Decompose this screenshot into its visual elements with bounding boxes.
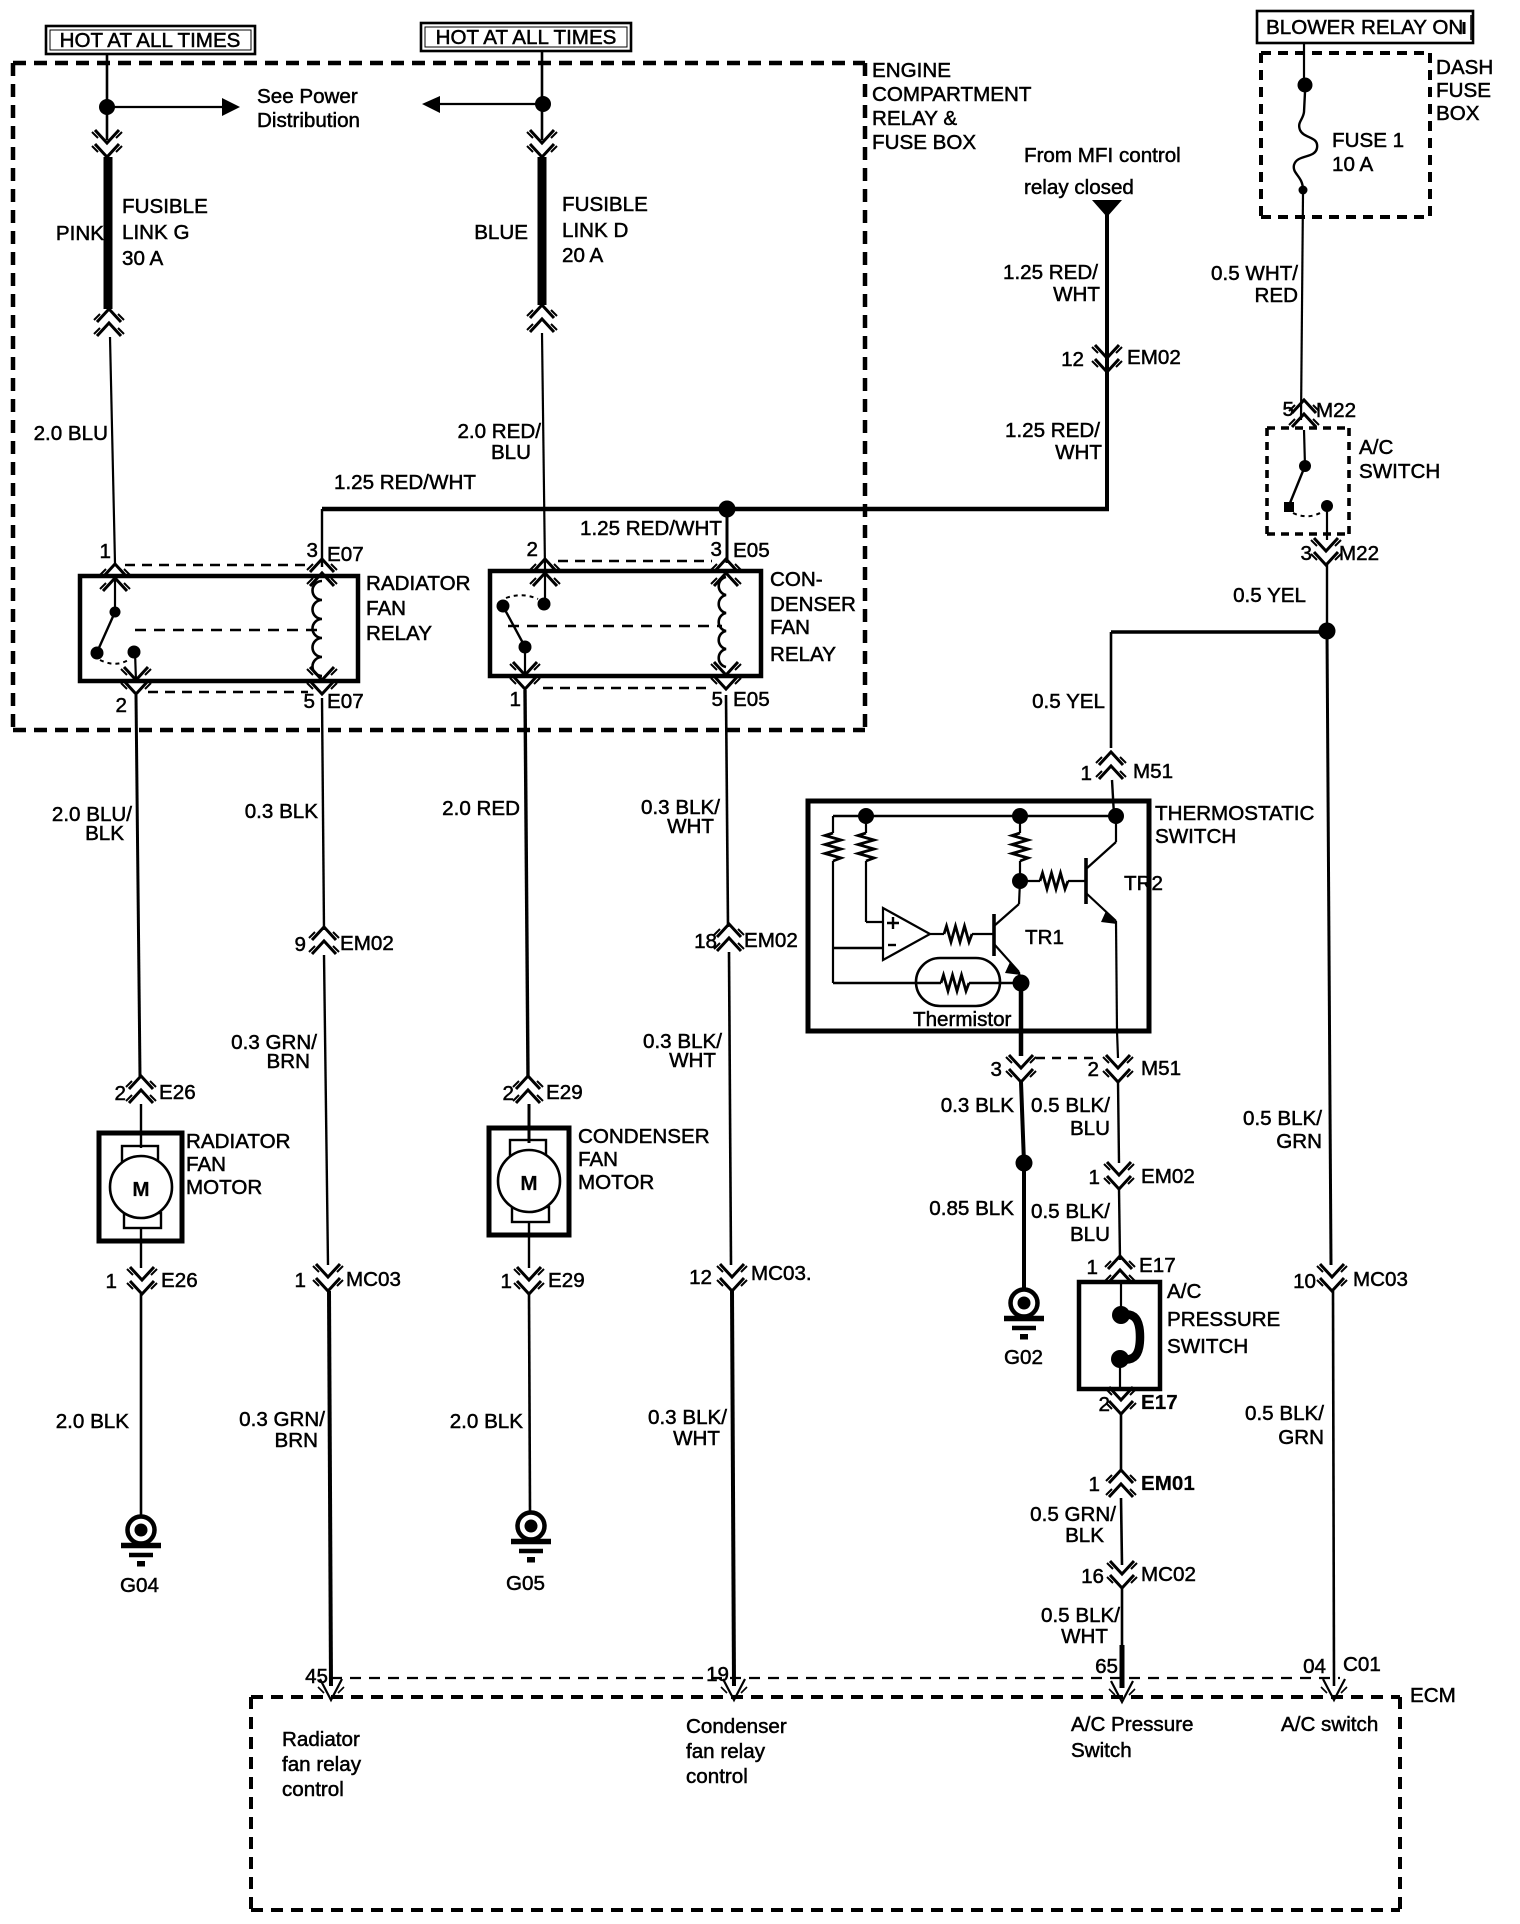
transistor TR1 — [994, 881, 1021, 982]
svg-text:GRN: GRN — [1276, 1130, 1322, 1153]
svg-text:1: 1 — [295, 1269, 306, 1292]
svg-text:FAN: FAN — [186, 1153, 226, 1176]
svg-text:E05: E05 — [733, 688, 770, 711]
resistor R-TR1-collector — [1012, 816, 1028, 881]
svg-text:FUSE: FUSE — [1436, 79, 1491, 102]
node A/C Pressure Switch — [1071, 1713, 1193, 1762]
svg-text:0.3 BLK/: 0.3 BLK/ — [648, 1406, 727, 1429]
wire 0.5 YEL horizontal to thermo column — [1111, 630, 1327, 633]
wire into thermostatic switch — [1112, 780, 1114, 815]
svg-text:SWITCH: SWITCH — [1155, 825, 1236, 848]
svg-text:M51: M51 — [1133, 760, 1173, 783]
svg-text:BLU: BLU — [1070, 1223, 1110, 1246]
svg-text:BOX: BOX — [1436, 102, 1480, 125]
wire from HOT2 to fusible link D — [541, 51, 544, 140]
svg-text:EM02: EM02 — [744, 929, 798, 952]
resistor R-TR2-base — [1020, 873, 1086, 889]
node Condenser fan relay control — [686, 1715, 787, 1788]
wire 0.5 BLK/BLU — [1119, 1189, 1120, 1260]
svg-text:FAN: FAN — [366, 597, 406, 620]
svg-text:12: 12 — [1061, 348, 1084, 371]
fusible link D 20A (BLUE) — [527, 130, 557, 332]
svg-text:HOT AT ALL TIMES: HOT AT ALL TIMES — [60, 29, 241, 52]
svg-text:1: 1 — [100, 540, 111, 563]
svg-text:LINK D: LINK D — [562, 219, 628, 242]
svg-text:control: control — [282, 1778, 344, 1801]
wire 2.0 BLK to G05 — [529, 1294, 530, 1512]
svg-text:45: 45 — [305, 1665, 328, 1688]
wire 0.5 BLK/WHT to ECM 65 — [1121, 1588, 1124, 1645]
svg-text:5: 5 — [1283, 398, 1294, 421]
svg-text:M: M — [520, 1172, 537, 1195]
svg-text:10 A: 10 A — [1332, 153, 1373, 176]
svg-text:THERMOSTATIC: THERMOSTATIC — [1155, 802, 1315, 825]
svg-text:BLK: BLK — [1065, 1524, 1104, 1547]
A/C switch (dashed box) — [1267, 428, 1349, 534]
svg-text:G05: G05 — [506, 1572, 545, 1595]
svg-text:E26: E26 — [161, 1269, 198, 1292]
svg-text:BLOWER RELAY ON: BLOWER RELAY ON — [1266, 16, 1463, 39]
node junction dot — [535, 96, 551, 112]
svg-text:16: 16 — [1081, 1565, 1104, 1588]
wire 0.3 BLK/WHT relay2 pin5 down — [726, 695, 728, 927]
thermostatic switch (box) — [808, 801, 1149, 1031]
svg-text:2.0 BLK: 2.0 BLK — [450, 1410, 524, 1433]
svg-text:SWITCH: SWITCH — [1167, 1335, 1248, 1358]
node HOT AT ALL TIMES (left) — [46, 26, 255, 54]
svg-text:0.5 WHT/: 0.5 WHT/ — [1211, 262, 1298, 285]
svg-text:1.25 RED/WHT: 1.25 RED/WHT — [580, 517, 722, 540]
wire motor to 1 E29 — [528, 1222, 530, 1268]
svg-text:WHT: WHT — [1055, 441, 1102, 464]
svg-text:ECM: ECM — [1410, 1684, 1456, 1707]
svg-text:2: 2 — [115, 1082, 126, 1105]
wire 0.5 YEL down to junction — [1326, 565, 1328, 631]
svg-text:EM02: EM02 — [340, 932, 394, 955]
svg-text:WHT: WHT — [667, 815, 714, 838]
svg-text:0.3 BLK: 0.3 BLK — [941, 1094, 1015, 1117]
svg-text:1: 1 — [501, 1270, 512, 1293]
wire 2.0 RED relay2 pin1 to motor — [525, 690, 528, 1077]
wire 0.5 BLK/BLU — [1118, 1082, 1119, 1163]
svg-text:5: 5 — [304, 690, 315, 713]
connector 1 E29 — [514, 1267, 544, 1294]
svg-text:Thermistor: Thermistor — [913, 1008, 1012, 1031]
connector 1 E17 — [1105, 1256, 1135, 1283]
svg-text:0.5 BLK/: 0.5 BLK/ — [1031, 1200, 1110, 1223]
svg-text:M22: M22 — [1339, 542, 1379, 565]
svg-text:A/C switch: A/C switch — [1281, 1713, 1378, 1736]
svg-text:MOTOR: MOTOR — [186, 1176, 262, 1199]
svg-text:FUSIBLE: FUSIBLE — [122, 195, 208, 218]
svg-text:BLK: BLK — [85, 822, 124, 845]
svg-text:1: 1 — [510, 688, 521, 711]
svg-text:LINK G: LINK G — [122, 221, 190, 244]
op-amp U1 — [883, 908, 930, 960]
svg-text:9: 9 — [295, 933, 306, 956]
svg-text:MC02: MC02 — [1141, 1563, 1196, 1586]
wire op-amp minus input — [833, 947, 883, 950]
resistor R-left1 — [825, 816, 841, 983]
wire 0.5 GRN/BLK — [1121, 1498, 1122, 1565]
wire 0.3 BLK thermo pin3 to splice — [1021, 1082, 1024, 1163]
motor CONDENSER FAN MOTOR — [489, 1128, 569, 1235]
wire motor to 1 E26 — [140, 1228, 142, 1268]
connector 5 M22 — [1289, 400, 1319, 427]
resistor R-opamp-out — [930, 926, 994, 942]
svg-text:0.3 BLK: 0.3 BLK — [245, 800, 319, 823]
svg-text:BRN: BRN — [267, 1050, 310, 1073]
wire to 1 EM01 — [1120, 1414, 1123, 1472]
svg-text:M22: M22 — [1316, 399, 1356, 422]
svg-text:DASH: DASH — [1436, 56, 1493, 79]
svg-text:GRN: GRN — [1278, 1426, 1324, 1449]
svg-text:MC03: MC03 — [346, 1268, 401, 1291]
svg-text:RELAY: RELAY — [366, 622, 432, 645]
wire 2.0 BLU to relay pin 1 — [110, 337, 115, 563]
svg-text:2.0 RED: 2.0 RED — [442, 797, 520, 820]
node splice dot — [1016, 1155, 1033, 1172]
svg-text:WHT: WHT — [1061, 1625, 1108, 1648]
connector 16 MC02 — [1107, 1561, 1137, 1588]
wire 0.85 BLK to G02 — [1022, 1163, 1026, 1290]
svg-text:FUSIBLE: FUSIBLE — [562, 193, 648, 216]
svg-text:2: 2 — [116, 694, 127, 717]
svg-text:FUSE 1: FUSE 1 — [1332, 129, 1404, 152]
svg-text:E26: E26 — [159, 1081, 196, 1104]
svg-text:HOT AT ALL TIMES: HOT AT ALL TIMES — [436, 26, 617, 49]
ground G05 — [511, 1513, 551, 1563]
svg-text:0.5 BLK/: 0.5 BLK/ — [1243, 1107, 1322, 1130]
connector 1 E26 — [127, 1267, 157, 1294]
svg-text:BLUE: BLUE — [474, 221, 528, 244]
svg-text:1.25 RED/: 1.25 RED/ — [1005, 419, 1100, 442]
connector 1 EM01 — [1106, 1470, 1136, 1497]
fusible link G 30A (PINK) — [92, 130, 124, 336]
thermistor — [833, 958, 1020, 1006]
node dot C — [1108, 808, 1124, 824]
svg-text:1: 1 — [1089, 1473, 1100, 1496]
svg-text:1: 1 — [106, 1270, 117, 1293]
wire 1.25 RED/WHT horizontal bus — [322, 507, 1109, 512]
svg-text:65: 65 — [1095, 1655, 1118, 1678]
wire 0.3 GRN/BRN — [324, 955, 328, 1265]
ECM (dashed box) — [331, 1677, 1340, 1679]
svg-text:12: 12 — [689, 1266, 712, 1289]
svg-text:1: 1 — [1087, 1256, 1098, 1279]
svg-text:20 A: 20 A — [562, 244, 603, 267]
svg-text:CON-: CON- — [770, 568, 823, 591]
svg-text:TR2: TR2 — [1124, 872, 1163, 895]
svg-text:WHT: WHT — [669, 1049, 716, 1072]
svg-text:RELAY: RELAY — [770, 643, 836, 666]
svg-text:18: 18 — [694, 930, 717, 953]
svg-text:E07: E07 — [327, 543, 364, 566]
wire 0.5 WHT/RED fuse to 5 M22 — [1301, 194, 1303, 420]
svg-text:3: 3 — [711, 538, 722, 561]
engine compartment relay & fuse box (dashed enclosure) — [13, 63, 865, 730]
connector 1 M51 — [1096, 752, 1126, 779]
svg-text:2: 2 — [1099, 1393, 1110, 1416]
svg-text:WHT: WHT — [1053, 283, 1100, 306]
svg-text:RADIATOR: RADIATOR — [366, 572, 471, 595]
node junction dot on bus — [719, 501, 736, 518]
svg-text:RED: RED — [1255, 284, 1298, 307]
connector 1 MC03 — [313, 1264, 343, 1291]
svg-text:3: 3 — [307, 539, 318, 562]
svg-text:C01: C01 — [1343, 1653, 1381, 1676]
node dot thermistor/TR1 emitter — [1013, 975, 1030, 992]
dash fuse box (dashed enclosure) — [1261, 53, 1430, 217]
connector 2 M51 — [1103, 1055, 1133, 1082]
wire 0.5 YEL down to 1 M51 — [1110, 632, 1113, 748]
A/C pressure switch — [1079, 1282, 1160, 1389]
wire 2.0 BLK to G04 — [140, 1294, 143, 1516]
svg-text:E05: E05 — [733, 539, 770, 562]
svg-text:ENGINE: ENGINE — [872, 59, 951, 82]
svg-text:Distribution: Distribution — [257, 109, 360, 132]
connector 18 EM02 — [714, 924, 744, 951]
svg-text:1: 1 — [1081, 762, 1092, 785]
svg-text:RADIATOR: RADIATOR — [186, 1130, 291, 1153]
svg-text:1.25 RED/WHT: 1.25 RED/WHT — [334, 471, 476, 494]
svg-text:0.5 BLK/: 0.5 BLK/ — [1041, 1604, 1120, 1627]
svg-text:EM02: EM02 — [1141, 1165, 1195, 1188]
svg-text:WHT: WHT — [673, 1427, 720, 1450]
svg-text:fan relay: fan relay — [686, 1740, 766, 1763]
node dot B — [1012, 808, 1028, 824]
svg-text:EM01: EM01 — [1141, 1472, 1195, 1495]
svg-text:G02: G02 — [1004, 1346, 1043, 1369]
svg-text:E29: E29 — [546, 1081, 583, 1104]
svg-text:FUSE BOX: FUSE BOX — [872, 131, 976, 154]
svg-text:0.5 YEL: 0.5 YEL — [1233, 584, 1306, 607]
connector 10 MC03 — [1317, 1264, 1347, 1291]
node dot TR1 base junction — [1012, 873, 1028, 889]
connector 1 EM02 — [1104, 1162, 1134, 1189]
svg-text:0.5 GRN/: 0.5 GRN/ — [1030, 1503, 1116, 1526]
wire 0.3 GRN/BRN to ECM pin 45 — [329, 1291, 331, 1686]
ground G04 — [121, 1517, 161, 1567]
transistor TR2 — [1086, 816, 1117, 1031]
svg-text:DENSER: DENSER — [770, 593, 856, 616]
node dot A — [858, 808, 874, 824]
wire 0.3 BLK/WHT to ECM pin 19 — [732, 1291, 734, 1686]
node Radiator fan relay control — [282, 1728, 362, 1801]
wire 2.0 RED/BLU to relay pin 2 — [542, 333, 545, 569]
svg-text:0.3 GRN/: 0.3 GRN/ — [239, 1408, 325, 1431]
svg-text:fan relay: fan relay — [282, 1753, 362, 1776]
motor RADIATOR FAN MOTOR — [99, 1133, 182, 1241]
wire 0.3 BLK relay1 pin5 down — [322, 698, 324, 930]
svg-text:04: 04 — [1303, 1655, 1326, 1678]
wire pin3 down from thermistor node — [1019, 983, 1024, 1056]
svg-text:M: M — [132, 1178, 149, 1201]
connector 12 MC03. — [717, 1264, 747, 1291]
svg-text:MC03: MC03 — [1353, 1268, 1408, 1291]
svg-text:BLU: BLU — [491, 441, 531, 464]
svg-text:MC03.: MC03. — [751, 1262, 812, 1285]
ground G02 — [1004, 1290, 1044, 1340]
svg-text:MOTOR: MOTOR — [578, 1171, 654, 1194]
svg-text:E17: E17 — [1139, 1254, 1176, 1277]
svg-text:Condenser: Condenser — [686, 1715, 787, 1738]
svg-text:BRN: BRN — [275, 1429, 318, 1452]
wire bus drop to relay1 pin3 — [321, 509, 323, 567]
svg-text:E07: E07 — [327, 690, 364, 713]
svg-text:FAN: FAN — [578, 1148, 618, 1171]
relay RADIATOR FAN RELAY — [80, 559, 358, 694]
wire thermo pin2 to connector — [1117, 1031, 1118, 1058]
wire internal top rail — [833, 815, 1116, 817]
svg-text:1.25 RED/: 1.25 RED/ — [1003, 261, 1098, 284]
svg-text:3: 3 — [991, 1058, 1002, 1081]
svg-text:EM02: EM02 — [1127, 346, 1181, 369]
svg-text:A/C: A/C — [1167, 1280, 1201, 1303]
svg-text:3: 3 — [1301, 542, 1312, 565]
node HOT AT ALL TIMES (middle) — [421, 23, 631, 51]
node junction dot — [99, 99, 115, 115]
svg-text:CONDENSER: CONDENSER — [578, 1125, 710, 1148]
connector 2 E17 — [1106, 1387, 1136, 1414]
resistor R-left2 — [858, 816, 883, 922]
svg-text:0.85 BLK: 0.85 BLK — [929, 1197, 1014, 1220]
fuse FUSE 1 10A — [1294, 78, 1317, 195]
svg-text:From MFI control: From MFI control — [1024, 144, 1181, 167]
wire bus drop to relay2 pin3 — [726, 509, 729, 563]
svg-text:BLU: BLU — [1070, 1117, 1110, 1140]
node BLOWER RELAY ON — [1257, 11, 1473, 43]
svg-text:A/C: A/C — [1359, 436, 1393, 459]
svg-text:FAN: FAN — [770, 616, 810, 639]
wire from HOT1 to fusible link G — [106, 54, 109, 140]
svg-text:E17: E17 — [1141, 1391, 1178, 1414]
svg-text:10: 10 — [1293, 1270, 1316, 1293]
svg-text:2.0 BLK: 2.0 BLK — [56, 1410, 130, 1433]
connector 2 E29 — [513, 1076, 543, 1103]
svg-text:control: control — [686, 1765, 748, 1788]
svg-text:30 A: 30 A — [122, 247, 163, 270]
wire arrow to power distribution (left) — [422, 96, 543, 113]
svg-text:Radiator: Radiator — [282, 1728, 360, 1751]
svg-text:PINK: PINK — [56, 222, 104, 245]
svg-text:2: 2 — [503, 1082, 514, 1105]
svg-text:2.0 RED/: 2.0 RED/ — [457, 420, 541, 443]
svg-text:2: 2 — [1088, 1058, 1099, 1081]
svg-text:0.5 YEL: 0.5 YEL — [1032, 690, 1105, 713]
svg-text:PRESSURE: PRESSURE — [1167, 1308, 1280, 1331]
connector 12 EM02 — [1092, 345, 1122, 372]
connector 3 M22 — [1311, 538, 1341, 565]
wire 0.3 BLK/WHT — [729, 952, 731, 1265]
svg-text:E29: E29 — [548, 1269, 585, 1292]
svg-text:relay closed: relay closed — [1024, 176, 1134, 199]
wire 0.5 BLK/GRN to ECM 04 — [1333, 1291, 1334, 1686]
svg-text:5: 5 — [712, 688, 723, 711]
svg-text:M51: M51 — [1141, 1057, 1181, 1080]
connector 9 EM02 — [309, 927, 339, 954]
connector dashed link — [1036, 1057, 1100, 1060]
svg-text:Switch: Switch — [1071, 1739, 1132, 1762]
svg-text:SWITCH: SWITCH — [1359, 460, 1440, 483]
svg-text:2: 2 — [527, 538, 538, 561]
wire See Power Distribution arrow — [107, 98, 240, 116]
wire 2.0 BLU/BLK relay1 pin2 to motor — [136, 695, 140, 1077]
svg-text:See Power: See Power — [257, 85, 358, 108]
wire from blower relay to fuse — [1303, 43, 1305, 85]
wire 1.25 RED/WHT from MFI — [1092, 200, 1122, 511]
svg-text:COMPARTMENT: COMPARTMENT — [872, 83, 1032, 106]
connector 3 M51 — [1006, 1055, 1036, 1082]
relay CONDENSER FAN RELAY — [490, 559, 761, 689]
svg-text:TR1: TR1 — [1025, 926, 1064, 949]
svg-text:0.5 BLK/: 0.5 BLK/ — [1031, 1094, 1110, 1117]
connector 2 E26 — [126, 1076, 156, 1103]
svg-text:1: 1 — [1089, 1166, 1100, 1189]
svg-text:2.0 BLU: 2.0 BLU — [34, 422, 108, 445]
svg-text:A/C Pressure: A/C Pressure — [1071, 1713, 1193, 1736]
svg-text:0.5 BLK/: 0.5 BLK/ — [1245, 1402, 1324, 1425]
svg-text:RELAY &: RELAY & — [872, 107, 957, 130]
wire 0.5 BLK/GRN A/C switch column down — [1327, 631, 1331, 1265]
node junction dot 0.5 YEL — [1319, 623, 1336, 640]
svg-text:G04: G04 — [120, 1574, 159, 1597]
